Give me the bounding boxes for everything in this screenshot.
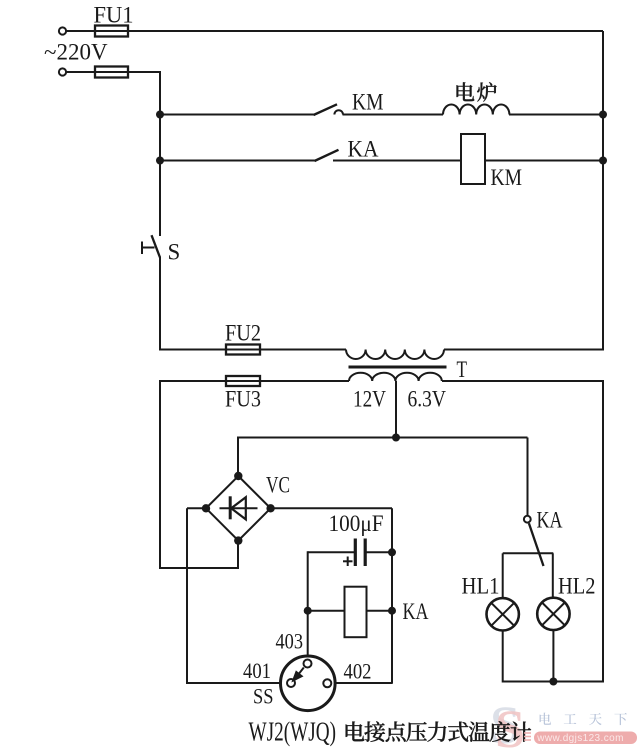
- wire: [343, 114, 444, 116]
- watermark 电工天下: [540, 713, 551, 725]
- wire: [308, 551, 354, 553]
- wire: [444, 349, 604, 351]
- wire (left rail lower): [159, 380, 161, 569]
- wire (DC top bus): [237, 437, 528, 439]
- svg-text:KM: KM: [352, 90, 384, 115]
- transformer T secondary: [349, 373, 442, 381]
- wire: [367, 551, 393, 553]
- svg-text:HL1: HL1: [462, 574, 500, 599]
- svg-text:FU2: FU2: [225, 321, 261, 346]
- capacitor C 100uF: [354, 539, 357, 567]
- transformer T core: [349, 366, 447, 369]
- wire: [271, 507, 392, 509]
- node B (KA row): [156, 157, 164, 165]
- wire: [527, 438, 529, 516]
- pressure thermometer SS (dial): [281, 656, 336, 711]
- terminal L1 (~220V line 1): [59, 27, 66, 34]
- wire: [503, 552, 554, 554]
- capacitor + polarity: [343, 560, 353, 562]
- transformer T primary: [346, 350, 444, 360]
- svg-text:HL2: HL2: [558, 574, 596, 599]
- svg-text:KA: KA: [537, 508, 563, 533]
- SS terminal 402: [323, 679, 331, 687]
- wire (bottom bus): [503, 681, 604, 683]
- svg-text:KM: KM: [491, 165, 523, 190]
- switch KM contact: [314, 104, 338, 115]
- SS terminal 403: [304, 660, 312, 668]
- node: [388, 548, 396, 556]
- watermark url band: [534, 732, 637, 745]
- svg-text:T: T: [457, 357, 468, 382]
- coil KA (relay): [345, 587, 367, 638]
- node (right rail KA row): [599, 157, 607, 165]
- wire: [552, 553, 554, 598]
- terminal L2 (~220V line 2): [59, 68, 66, 75]
- svg-text:KA: KA: [403, 599, 429, 624]
- node: [549, 678, 557, 686]
- wire: [66, 30, 95, 32]
- wire (to SS common): [307, 551, 309, 659]
- node A (KM row): [156, 111, 164, 119]
- wire: [502, 631, 504, 683]
- svg-text:100μF: 100μF: [329, 511, 384, 536]
- switch KA contact: [315, 150, 339, 161]
- wire: [187, 507, 206, 509]
- svg-text:SS: SS: [253, 684, 274, 709]
- wire: [66, 71, 95, 73]
- svg-text:401: 401: [243, 658, 271, 683]
- svg-text:FU3: FU3: [225, 387, 261, 412]
- wire (negative rail down): [186, 508, 188, 684]
- switch KA (lamp select) pivot: [524, 516, 531, 523]
- inductor 电炉 (electric furnace heater): [443, 105, 509, 115]
- svg-text:~220V: ~220V: [44, 40, 108, 65]
- svg-text:S: S: [495, 699, 525, 752]
- wire: [160, 114, 314, 116]
- wire (left rail to FU2): [159, 257, 161, 351]
- svg-text:KA: KA: [348, 137, 379, 162]
- wire (positive rail down): [391, 508, 393, 684]
- node: [388, 607, 396, 615]
- wire: [128, 30, 603, 32]
- svg-text:6.3V: 6.3V: [408, 387, 447, 412]
- svg-text:402: 402: [344, 659, 372, 684]
- coil KM (contactor): [461, 134, 485, 184]
- wire: [552, 630, 554, 682]
- caption 电接点压力式温度计: [346, 721, 365, 741]
- wire: [128, 71, 160, 73]
- fuse FU1: [95, 26, 128, 37]
- bridge rectifier VC (diamond): [206, 476, 271, 541]
- wire: [160, 160, 315, 162]
- switch KA blade: [529, 523, 544, 566]
- wire (center tap): [395, 381, 397, 438]
- svg-text:FU1: FU1: [94, 3, 134, 28]
- wire: [308, 610, 345, 612]
- switch S: [152, 235, 161, 257]
- wire: [509, 114, 603, 116]
- svg-text:VC: VC: [266, 473, 290, 498]
- node bridge left: [202, 504, 210, 512]
- svg-text:WJ2(WJQ): WJ2(WJQ): [249, 717, 337, 747]
- svg-text:12V: 12V: [353, 387, 386, 412]
- wire: [159, 567, 239, 569]
- wire (right rail top): [602, 31, 604, 350]
- lamp HL2: [537, 598, 569, 630]
- svg-text:www.dgjs123.com: www.dgjs123.com: [536, 733, 624, 744]
- node: [304, 607, 312, 615]
- SS terminal 401: [287, 679, 295, 687]
- lamp HL1: [487, 598, 519, 630]
- bridge diode symbol: [220, 507, 258, 509]
- fuse FU2: [226, 345, 260, 355]
- label 电炉: [457, 82, 475, 101]
- wire (left rail upper): [159, 71, 161, 236]
- wire: [237, 438, 239, 477]
- node bridge bottom: [234, 536, 242, 544]
- wire: [260, 349, 346, 351]
- wire: [485, 160, 603, 162]
- svg-text:S: S: [168, 240, 181, 265]
- wire (secondary row): [160, 380, 226, 382]
- node (right rail KM row): [599, 111, 607, 119]
- node center tap: [392, 434, 400, 442]
- wire (right rail lower): [602, 381, 604, 683]
- fuse FU1b: [95, 67, 128, 78]
- wire: [367, 610, 393, 612]
- node bridge right: [266, 504, 274, 512]
- wire: [335, 682, 392, 684]
- wire: [237, 541, 239, 569]
- wire: [502, 553, 504, 598]
- fuse FU3: [226, 376, 260, 386]
- wire: [187, 682, 280, 684]
- SS pointer arrow: [299, 668, 304, 675]
- node bridge top: [234, 472, 242, 480]
- svg-text:403: 403: [276, 629, 304, 654]
- wire: [333, 160, 461, 162]
